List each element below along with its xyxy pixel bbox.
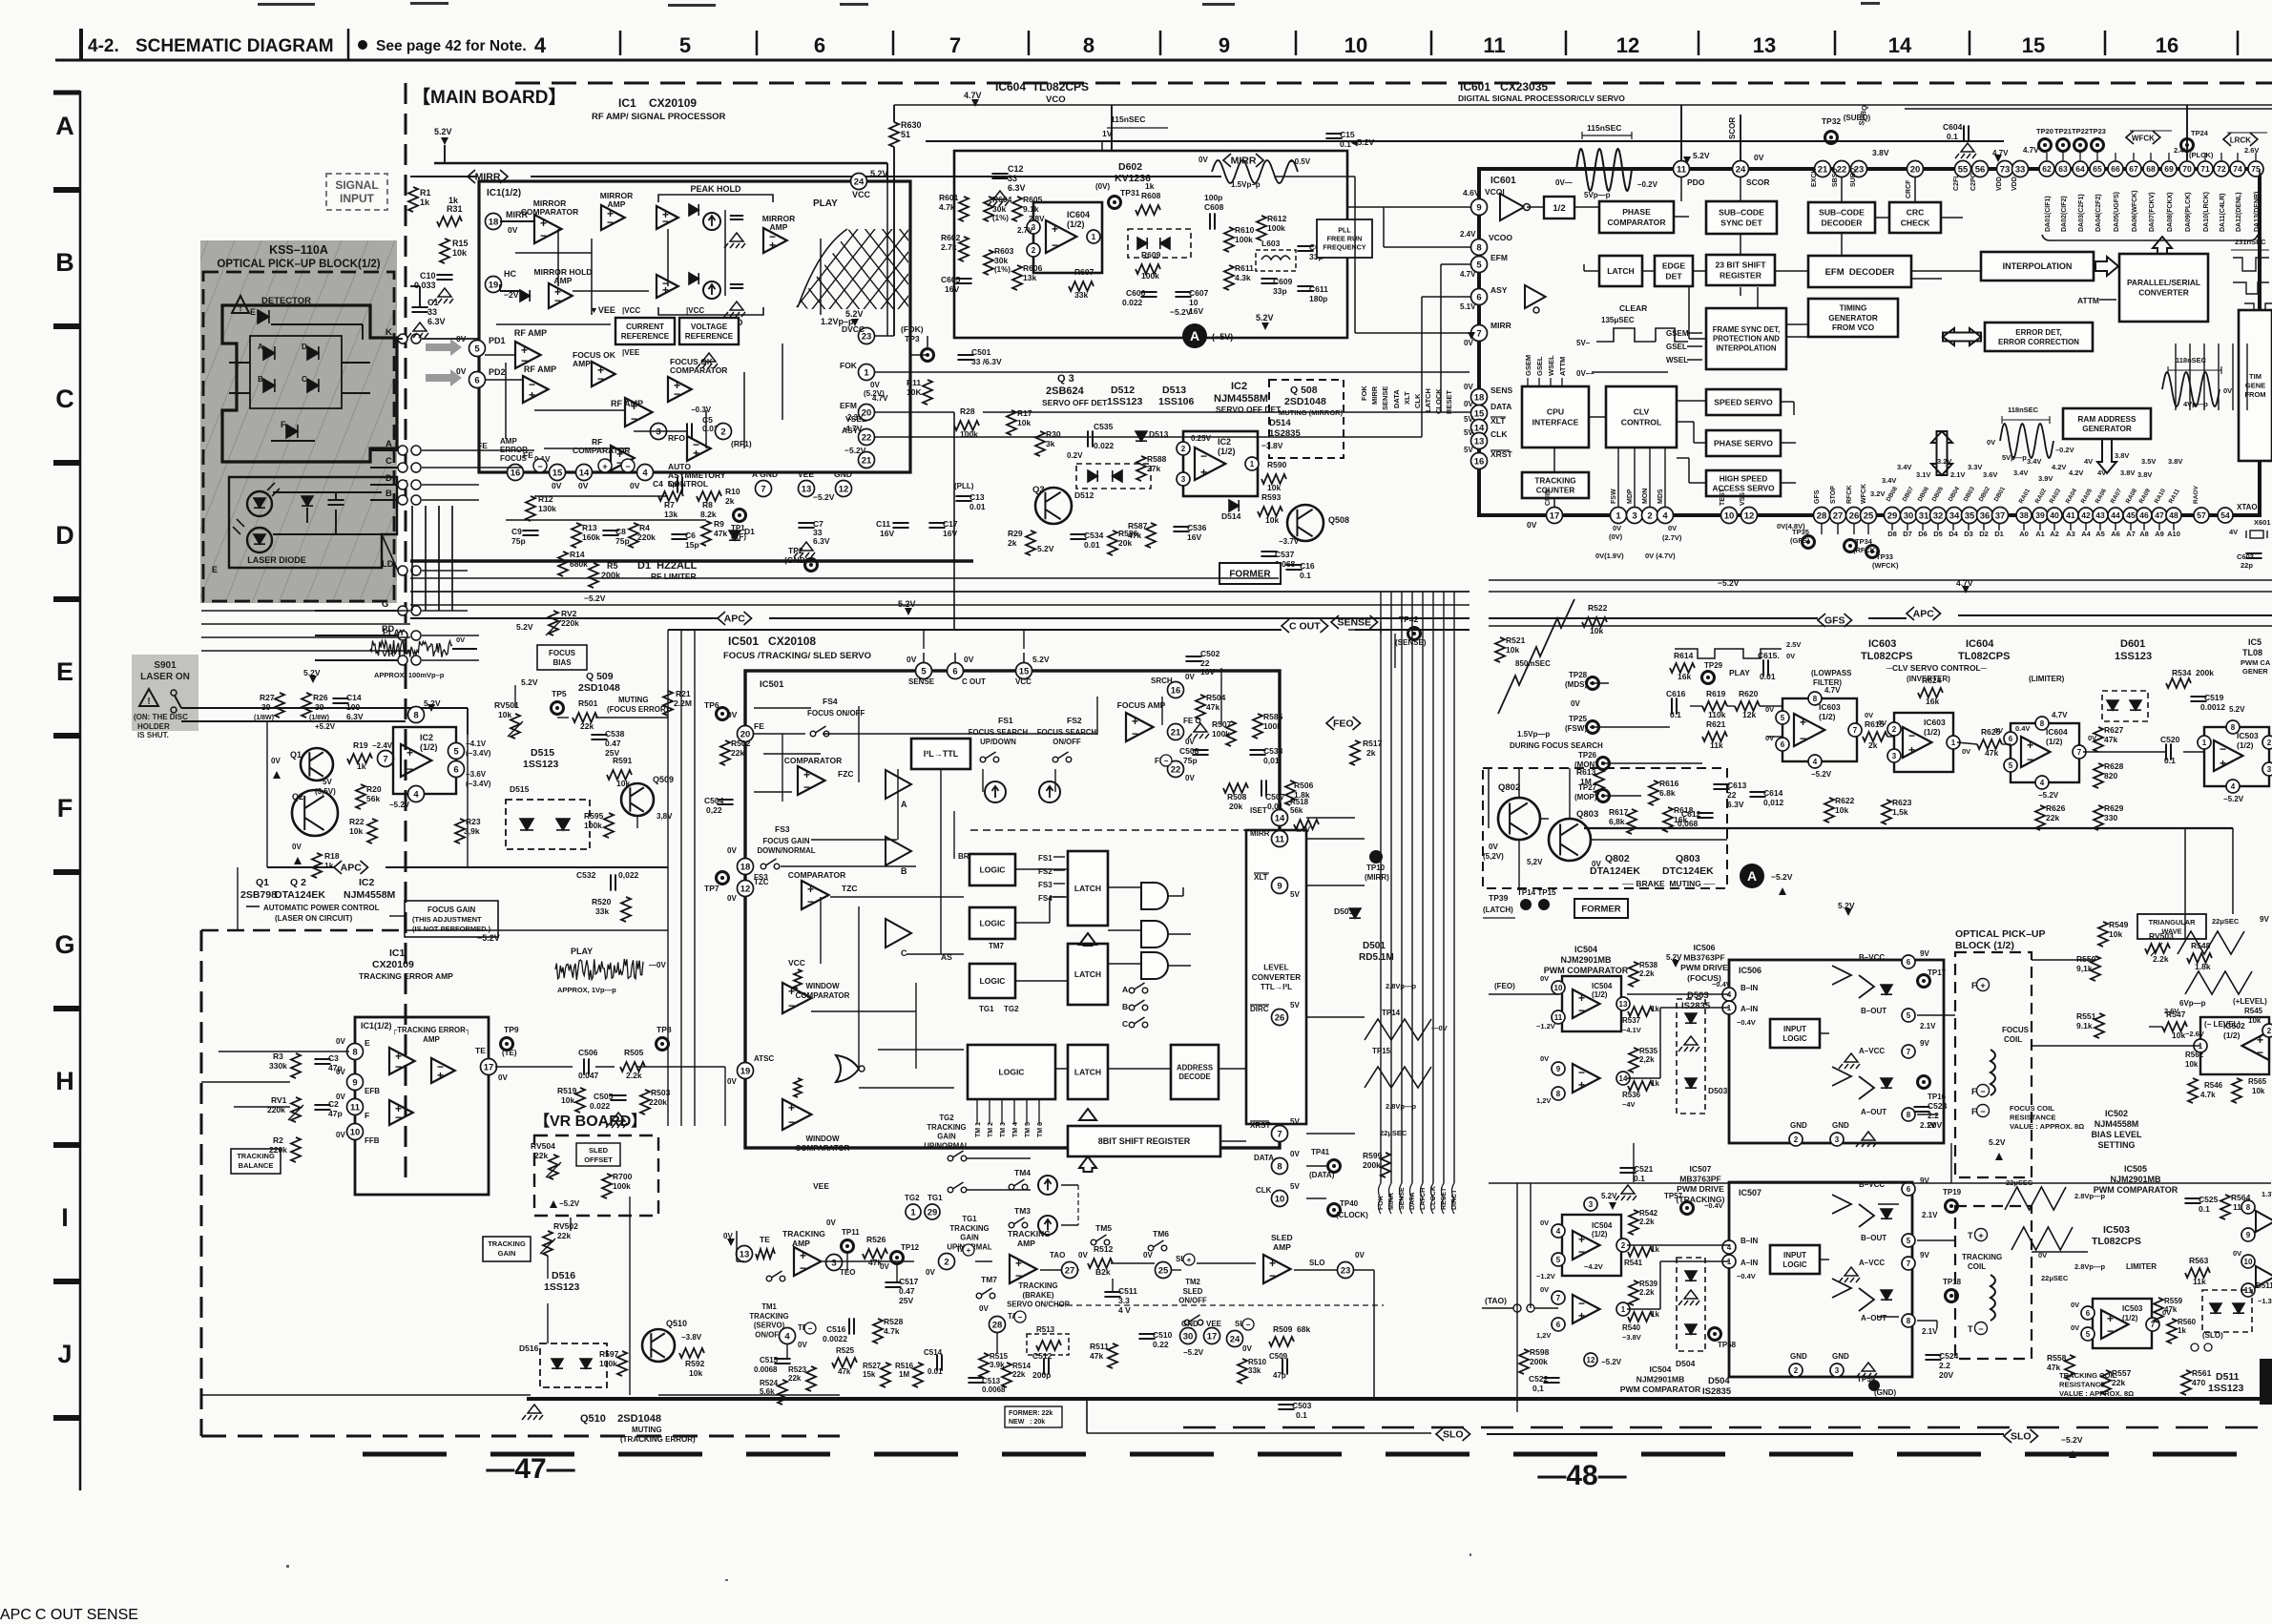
svg-text:180p: 180p <box>1309 294 1327 303</box>
bottom hold isrc <box>703 281 720 299</box>
svg-text:8: 8 <box>1556 1090 1561 1098</box>
svg-text:SLO: SLO <box>1309 1259 1324 1267</box>
gfs bottom rail <box>1489 1182 2271 1184</box>
svg-text:C516: C516 <box>826 1324 846 1334</box>
pin9 XLT <box>1272 878 1288 894</box>
svg-text:TM7: TM7 <box>981 1275 997 1284</box>
svg-text:FE: FE <box>754 721 764 731</box>
apc cout stacked right tags <box>0 1607 138 1623</box>
svg-text:A7: A7 <box>2126 530 2136 538</box>
svg-text:9: 9 <box>1219 33 1230 57</box>
svg-text:VCC: VCC <box>788 958 805 968</box>
pin12 ic504 <box>1584 1353 1597 1366</box>
svg-text:IC604: IC604 <box>2046 727 2068 737</box>
svg-text:STOP: STOP <box>1830 486 1837 504</box>
svg-text:TRACKING ERROR AMP: TRACKING ERROR AMP <box>359 971 453 981</box>
C517 cap <box>885 1282 901 1287</box>
PLL free run freq box <box>1317 219 1372 258</box>
svg-text:PWM COMPARATOR: PWM COMPARATOR <box>1620 1385 1701 1394</box>
R558 R557 R561 <box>2065 1355 2074 1380</box>
D514 diode <box>1229 500 1239 511</box>
interpolation box <box>1981 252 2094 281</box>
svg-text:B–VCC: B–VCC <box>1859 1180 1885 1189</box>
svg-text:+: + <box>788 1101 795 1114</box>
svg-text:GFS: GFS <box>1814 489 1821 504</box>
svg-text:5: 5 <box>453 746 459 757</box>
R512 resistor <box>1088 1259 1113 1268</box>
svg-text:GSEL: GSEL <box>1535 356 1544 376</box>
svg-text:CLK: CLK <box>1413 393 1422 408</box>
ic506 bottom wires <box>0 1607 138 1623</box>
svg-text:56k: 56k <box>1290 806 1303 815</box>
svg-text:C512: C512 <box>1032 1351 1053 1361</box>
svg-text:R627: R627 <box>2104 725 2124 735</box>
svg-text:5: 5 <box>679 33 691 57</box>
svg-text:R512: R512 <box>1094 1244 1114 1254</box>
svg-text:2SB798: 2SB798 <box>240 889 277 901</box>
svg-text:(−5V): (−5V) <box>1212 332 1233 342</box>
svg-text:0V: 0V <box>1571 699 1580 708</box>
svg-text:REGISTER: REGISTER <box>1720 270 1762 280</box>
svg-text:C604: C604 <box>1943 122 1963 132</box>
svg-text:10k: 10k <box>1017 418 1031 427</box>
svg-text:A–IN: A–IN <box>1740 1005 1758 1013</box>
R18 resistor <box>312 853 322 878</box>
svg-text:5: 5 <box>2009 761 2013 770</box>
svg-text:(1/2): (1/2) <box>2046 737 2063 746</box>
svg-text:0V: 0V <box>1962 747 1970 756</box>
svg-text:22k: 22k <box>2112 1378 2125 1387</box>
svg-text:5V: 5V <box>1290 1001 1300 1010</box>
svg-text:4: 4 <box>642 468 648 478</box>
svg-text:10k: 10k <box>561 1095 574 1105</box>
svg-text:R549: R549 <box>2109 920 2129 929</box>
svg-text:INPUT: INPUT <box>340 192 375 205</box>
svg-text:−: − <box>1578 1297 1585 1310</box>
svg-text:R21: R21 <box>676 689 691 698</box>
timing generator box <box>1808 299 1898 337</box>
svg-text:—47—: —47— <box>486 1453 574 1485</box>
svg-text:8: 8 <box>1907 1111 1911 1119</box>
svg-text:MIRR: MIRR <box>1490 321 1511 330</box>
svg-text:5.2V: 5.2V <box>434 127 452 136</box>
R539 resistor <box>1629 1280 1638 1305</box>
svg-text:(1%): (1%) <box>992 214 1009 222</box>
svg-text:5: 5 <box>1907 1011 1911 1020</box>
MIRR tag line <box>410 176 477 177</box>
right bus curls <box>1379 1183 1382 1214</box>
svg-text:D514: D514 <box>1269 418 1291 428</box>
svg-text:33k: 33k <box>1074 290 1088 300</box>
svg-text:2.8Vp—p: 2.8Vp—p <box>2074 1192 2106 1200</box>
svg-text:3.8V: 3.8V <box>2120 468 2135 477</box>
svg-text:0V: 0V <box>2223 386 2232 395</box>
svg-text:R513: R513 <box>1036 1325 1055 1334</box>
svg-text:R17: R17 <box>1017 408 1032 418</box>
efm bus to dsp <box>983 411 1470 413</box>
svg-text:IS2835: IS2835 <box>1702 1386 1732 1397</box>
svg-text:0V: 0V <box>1994 726 2003 735</box>
svg-text:+: + <box>1269 1257 1276 1270</box>
Q802 transistor <box>1498 798 1540 840</box>
svg-text:A: A <box>1122 985 1128 994</box>
svg-text:DA02(CIF2): DA02(CIF2) <box>2061 196 2068 232</box>
svg-text:0.1: 0.1 <box>1296 1410 1307 1420</box>
svg-text:200k: 200k <box>1363 1160 1381 1170</box>
ic507 bottom wires <box>0 1607 138 1623</box>
svg-text:SUB–CODE: SUB–CODE <box>1719 208 1764 218</box>
svg-text:NJM4558M: NJM4558M <box>344 889 396 901</box>
svg-text:IC601 CX23035: IC601 CX23035 <box>1460 80 1548 94</box>
rf comparator <box>611 446 635 470</box>
svg-text:─CLV SERVO CONTROL─: ─CLV SERVO CONTROL─ <box>1886 663 1988 673</box>
svg-text:C520: C520 <box>2160 735 2180 744</box>
R22 resistor <box>367 819 377 843</box>
svg-text:75p: 75p <box>1183 756 1198 765</box>
svg-text:1,2V: 1,2V <box>1536 1096 1551 1105</box>
svg-text:FFB: FFB <box>365 1136 380 1145</box>
svg-text:DIGITAL SIGNAL PROCESSOR/CLV S: DIGITAL SIGNAL PROCESSOR/CLV SERVO <box>1458 94 1625 103</box>
pin8 VCOO <box>1471 239 1488 256</box>
R507 resistor <box>1226 721 1236 746</box>
svg-text:C503: C503 <box>1292 1401 1312 1410</box>
svg-text:5Vp—p: 5Vp—p <box>2002 453 2027 462</box>
svg-text:(1%): (1%) <box>994 265 1011 274</box>
svg-text:D: D <box>386 473 392 484</box>
svg-text:C613: C613 <box>1727 781 1747 790</box>
svg-text:73: 73 <box>2000 164 2011 175</box>
svg-text:13: 13 <box>1619 1000 1628 1009</box>
svg-text:0V: 0V <box>1185 673 1195 681</box>
svg-text:100k: 100k <box>1235 235 1253 244</box>
svg-text:0V: 0V <box>1489 843 1498 851</box>
svg-text:VALUE : APPROX. 8Ω: VALUE : APPROX. 8Ω <box>2059 1389 2134 1398</box>
svg-text:R516: R516 <box>895 1362 914 1370</box>
svg-text:TP59: TP59 <box>1857 1375 1876 1384</box>
svg-text:220k: 220k <box>649 1097 667 1107</box>
svg-text:5.2V: 5.2V <box>521 677 538 687</box>
svg-text:63: 63 <box>2058 164 2068 174</box>
svg-text:C505: C505 <box>594 1092 614 1101</box>
svg-text:22p: 22p <box>2241 561 2253 570</box>
svg-text:TAO: TAO <box>1050 1251 1065 1260</box>
svg-text:INTERFACE: INTERFACE <box>1532 417 1579 427</box>
svg-text:15p: 15p <box>685 540 699 550</box>
C523 cap <box>1913 1107 1929 1112</box>
svg-text:12: 12 <box>740 884 751 894</box>
svg-text:21: 21 <box>1818 164 1828 175</box>
R26 resistor <box>302 693 311 718</box>
svg-text:0.25V: 0.25V <box>1191 434 1212 443</box>
svg-text:IC507: IC507 <box>1690 1164 1712 1174</box>
pin2 RF1 <box>716 424 732 440</box>
svg-text:D514: D514 <box>1221 511 1241 521</box>
svg-text:28: 28 <box>992 1320 1003 1330</box>
pin 18 MIRR <box>486 214 502 230</box>
TP28 MDS <box>1587 677 1599 690</box>
svg-text:12: 12 <box>839 484 849 494</box>
svg-text:K: K <box>386 327 392 338</box>
svg-text:4: 4 <box>1662 510 1668 521</box>
pin13 TE <box>737 1246 753 1262</box>
phase servo box <box>1706 430 1781 456</box>
tracking feedback verticals <box>0 1607 138 1623</box>
svg-text:Q 508: Q 508 <box>1290 385 1318 396</box>
svg-text:R539: R539 <box>1639 1280 1658 1288</box>
svg-text:OPTICAL PICK–UP: OPTICAL PICK–UP <box>1955 928 2046 940</box>
svg-text:2.1V: 2.1V <box>1920 1022 1936 1031</box>
svg-text:16k: 16k <box>1678 672 1691 681</box>
svg-text:TEST: TEST <box>1720 488 1726 506</box>
C2 cap <box>314 1105 330 1110</box>
svg-text:FS4: FS4 <box>1038 894 1053 903</box>
svg-text:8: 8 <box>2040 719 2045 728</box>
svg-text:0V: 0V <box>1540 1285 1549 1294</box>
svg-text:D6: D6 <box>1918 530 1928 538</box>
svg-text:D513: D513 <box>1162 385 1186 396</box>
svg-text:55: 55 <box>1958 164 1969 175</box>
svg-text:APC: APC <box>1913 609 1935 620</box>
svg-text:L603: L603 <box>1261 239 1281 248</box>
R595 resistor <box>604 813 614 838</box>
svg-text:33: 33 <box>2015 164 2026 175</box>
svg-text:7: 7 <box>1476 328 1481 339</box>
svg-text:3: 3 <box>1835 1366 1840 1375</box>
ram address generator box <box>2063 408 2151 439</box>
svg-text:R606: R606 <box>1023 263 1043 273</box>
svg-text:330: 330 <box>2104 813 2117 822</box>
svg-text:FOCUS: FOCUS <box>2002 1026 2030 1034</box>
svg-text:WSEL: WSEL <box>1547 355 1555 376</box>
svg-text:0V: 0V <box>1527 520 1537 530</box>
svg-text:C501: C501 <box>971 347 991 357</box>
isrc focus <box>985 781 1006 802</box>
R588 resistor <box>1136 456 1146 481</box>
svg-text:A–IN: A–IN <box>1740 1259 1758 1267</box>
svg-text:4.6V: 4.6V <box>1463 188 1480 198</box>
svg-text:XTAO: XTAO <box>2237 503 2258 511</box>
svg-text:—0V: —0V <box>649 961 666 969</box>
TP10 MIRR <box>1369 850 1383 864</box>
focus diode upper <box>1881 985 1892 994</box>
svg-text:LOGIC: LOGIC <box>1782 1260 1807 1269</box>
svg-text:8: 8 <box>1277 1161 1282 1172</box>
svg-text:GND: GND <box>1832 1121 1849 1130</box>
svg-text:A8: A8 <box>2139 530 2149 538</box>
svg-text:C506: C506 <box>578 1048 598 1057</box>
svg-text:9: 9 <box>352 1077 357 1088</box>
svg-text:+5.2V: +5.2V <box>315 722 336 731</box>
detector diode A <box>263 346 275 360</box>
svg-text:33k: 33k <box>595 906 609 916</box>
svg-text:R29: R29 <box>1008 529 1023 538</box>
svg-text:4.7V: 4.7V <box>2023 146 2039 155</box>
svg-text:── BRAKE MUTING ──: ── BRAKE MUTING ── <box>1621 879 1716 888</box>
svg-text:C16: C16 <box>1300 561 1315 571</box>
svg-text:SLO: SLO <box>2011 1431 2032 1443</box>
svg-text:GENE: GENE <box>2245 382 2265 390</box>
svg-text:A–VCC: A–VCC <box>1859 1259 1885 1267</box>
R623 R622 <box>1882 800 1891 824</box>
svg-text:4.7V: 4.7V <box>1460 270 1476 279</box>
svg-text:AMP: AMP <box>500 437 517 446</box>
svg-text:MIRR: MIRR <box>1250 829 1270 838</box>
right low rails <box>0 1607 138 1623</box>
svg-text:HIGH SPEED: HIGH SPEED <box>1720 474 1768 483</box>
svg-text:IC1(1/2): IC1(1/2) <box>487 188 521 198</box>
R592 resistor <box>679 1348 704 1358</box>
latch feed wires <box>0 1607 138 1623</box>
svg-text:7: 7 <box>761 484 765 494</box>
svg-text:B–VCC: B–VCC <box>1859 953 1885 962</box>
svg-text:8BIT SHIFT REGISTER: 8BIT SHIFT REGISTER <box>1098 1136 1191 1146</box>
A mark 2 <box>1740 864 1764 888</box>
svg-text:19: 19 <box>489 280 499 290</box>
RV503 pot <box>2145 944 2170 953</box>
R522 resistor <box>1582 617 1607 627</box>
svg-text:(2.7V): (2.7V) <box>1662 533 1682 542</box>
svg-text:IC604 TL082CPS: IC604 TL082CPS <box>995 80 1089 94</box>
svg-text:R565: R565 <box>2248 1077 2267 1086</box>
R585 resistor <box>1253 714 1262 739</box>
svg-text:SENSE: SENSE <box>1337 617 1371 629</box>
nor gate <box>836 1055 859 1082</box>
dsp long verticals to servo <box>0 1607 138 1623</box>
detector diode C <box>307 379 319 392</box>
svg-text:EFB: EFB <box>365 1087 380 1095</box>
C504 cap <box>717 800 733 804</box>
R13 C8 R4 cluster <box>572 523 581 548</box>
svg-text:TRACKING: TRACKING <box>237 1152 275 1160</box>
frame sync det box <box>1706 308 1786 369</box>
TP20-23 test points <box>2039 139 2052 152</box>
svg-text:−: − <box>1052 239 1058 252</box>
svg-text:GENERATOR: GENERATOR <box>1828 314 1878 323</box>
laser diode circle 1 <box>247 491 272 516</box>
svg-text:R508: R508 <box>1227 792 1247 802</box>
svg-text:IC601: IC601 <box>1490 176 1516 186</box>
svg-text:DA10(LRCK): DA10(LRCK) <box>2203 192 2210 232</box>
svg-text:ERROR CORRECTION: ERROR CORRECTION <box>1998 338 2079 346</box>
svg-text:VEE: VEE <box>1206 1320 1222 1328</box>
svg-text:−: − <box>1015 1269 1022 1282</box>
svg-text:PD1: PD1 <box>489 336 506 345</box>
svg-text:┌TRACKING ERROR┐: ┌TRACKING ERROR┐ <box>392 1026 471 1035</box>
svg-text:D515: D515 <box>510 784 530 794</box>
svg-text:+: + <box>1015 1257 1022 1270</box>
laser block cap <box>327 500 344 505</box>
svg-text:LATCH: LATCH <box>1607 266 1634 276</box>
LRCK tag <box>2223 133 2258 146</box>
tracking coil dashed box <box>1955 1206 2032 1359</box>
laser diode box <box>229 477 397 568</box>
svg-text:TM5: TM5 <box>1095 1223 1112 1233</box>
svg-text:5: 5 <box>921 666 927 677</box>
svg-text:R518: R518 <box>1290 798 1309 806</box>
tracking diode upper <box>1881 1209 1892 1218</box>
svg-text:10: 10 <box>1724 510 1735 521</box>
pin1 A-IN tracking <box>1722 1255 1736 1268</box>
svg-text:6: 6 <box>1556 1321 1561 1329</box>
svg-text:NJM2901MB: NJM2901MB <box>1560 955 1612 965</box>
svg-text:75p: 75p <box>615 536 630 546</box>
final white speckles <box>286 1565 289 1568</box>
svg-text:Q510 2SD1048: Q510 2SD1048 <box>580 1413 661 1425</box>
svg-text:TRACKING: TRACKING <box>1962 1253 2002 1261</box>
svg-text:+: + <box>1132 715 1138 728</box>
column separator tick <box>619 31 622 55</box>
svg-text:0V: 0V <box>456 635 465 644</box>
bus cluster extension <box>0 1607 138 1623</box>
svg-text:8: 8 <box>1083 33 1094 57</box>
optical to rf wires <box>422 338 479 340</box>
high speed access servo box <box>1706 470 1781 496</box>
svg-text:R505: R505 <box>624 1048 644 1057</box>
IC2 opamp box <box>1183 431 1258 496</box>
svg-text:VCO: VCO <box>1046 94 1066 105</box>
svg-text:D3: D3 <box>1964 530 1973 538</box>
svg-text:IC604: IC604 <box>1067 210 1090 219</box>
svg-text:E: E <box>212 565 218 574</box>
svg-text:30k: 30k <box>994 256 1008 265</box>
svg-text:2: 2 <box>1181 445 1186 453</box>
svg-text:FREE RUN: FREE RUN <box>1327 235 1363 243</box>
signal arrows gray <box>426 339 462 356</box>
svg-text:TE: TE <box>475 1046 486 1055</box>
svg-text:C502: C502 <box>1200 649 1220 658</box>
svg-text:1: 1 <box>1951 739 1956 747</box>
column separator tick <box>756 31 759 55</box>
svg-text:TIMING: TIMING <box>1840 304 1867 313</box>
timing gen right wires <box>0 1607 138 1623</box>
svg-text:5.2V: 5.2V <box>845 309 864 319</box>
svg-text:5.1V: 5.1V <box>1460 302 1476 311</box>
R515 C513 R514 <box>979 1353 989 1378</box>
svg-text:C509: C509 <box>1269 1352 1288 1361</box>
svg-text:SPEED SERVO: SPEED SERVO <box>1714 398 1773 407</box>
svg-text:28: 28 <box>1817 510 1827 521</box>
svg-text:COMPARATOR: COMPARATOR <box>670 365 727 375</box>
svg-text:OFFSET: OFFSET <box>584 1156 613 1164</box>
svg-text:33p: 33p <box>1273 286 1287 296</box>
svg-text:6.3V: 6.3V <box>813 536 830 546</box>
svg-text:2.4V: 2.4V <box>1460 230 1476 239</box>
svg-text:(BRAKE): (BRAKE) <box>1023 1291 1054 1300</box>
svg-text:TP18: TP18 <box>1943 1278 1962 1286</box>
svg-text:+: + <box>437 1069 444 1082</box>
R590 resistor <box>1261 474 1286 484</box>
svg-text:3.3V: 3.3V <box>1968 463 1982 471</box>
svg-text:R14: R14 <box>570 550 585 559</box>
C512 cap <box>1044 1358 1049 1374</box>
subcode wires <box>0 1607 138 1623</box>
peak hold opamp1 <box>657 206 678 229</box>
TP7 <box>717 872 729 885</box>
svg-text:A1: A1 <box>2035 530 2045 538</box>
svg-text:8.2k: 8.2k <box>700 510 717 519</box>
svg-text:9: 9 <box>1476 202 1481 213</box>
svg-text:COMPARATOR: COMPARATOR <box>796 1144 850 1153</box>
svg-text:R4: R4 <box>639 523 650 532</box>
svg-text:GFS: GFS <box>1824 615 1845 627</box>
misc right vertical rails <box>2184 828 2186 940</box>
vr board wires <box>201 1394 531 1396</box>
svg-text:R504: R504 <box>1206 693 1226 702</box>
svg-text:2.2M: 2.2M <box>674 698 692 708</box>
svg-text:FOCUS GAIN: FOCUS GAIN <box>427 906 475 914</box>
svg-text:SIGNAL: SIGNAL <box>335 178 378 192</box>
svg-text:R526: R526 <box>866 1235 886 1244</box>
